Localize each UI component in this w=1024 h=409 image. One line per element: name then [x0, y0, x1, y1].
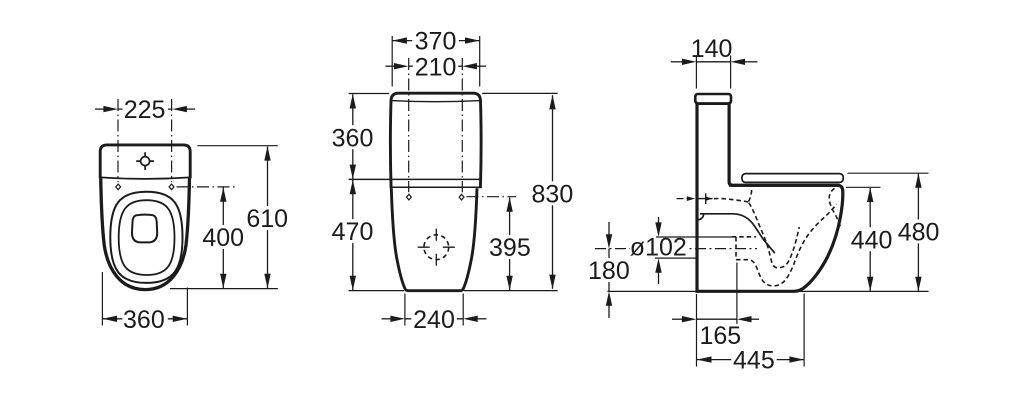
dimension 610 text: [245, 206, 290, 230]
dimension 370 text: [412, 29, 459, 53]
dimension 445 extensions: [697, 294, 805, 367]
dimension 400 line with arrows: [222, 188, 224, 289]
side hidden rim rise dashed: [749, 189, 752, 202]
dimension 445 text: [731, 348, 777, 372]
dimension 225 left arrow: [95, 108, 105, 110]
dimension 440 line with arrows: [869, 188, 871, 291]
plan target symbol (lid fixing) circle: [141, 157, 150, 166]
dimension 610 extension top: [197, 145, 277, 147]
dimension 210 text: [413, 54, 459, 78]
dimension 225 right arrow: [185, 108, 195, 110]
dimension 360 (front) text: [330, 125, 375, 149]
dimension 470 text: [330, 219, 375, 243]
dimension 165 line: [697, 318, 737, 320]
front top extension line right: [482, 92, 557, 94]
dimension 360 (front) line with arrows: [352, 94, 354, 179]
side outlet centerline dash-dot: [595, 248, 757, 250]
plan cistern tank outline: [100, 145, 190, 178]
dimension 370 extensions: [392, 36, 480, 87]
svg-text:470: 470: [332, 218, 374, 246]
dimension 440 text: [848, 227, 893, 251]
side outlet pipe bottom line: [655, 257, 696, 259]
svg-text:210: 210: [415, 53, 457, 81]
front hinge diamond left: [407, 194, 412, 200]
dimension 480 line with arrows: [917, 174, 919, 291]
dimension 210 left arrow: [385, 65, 395, 67]
dimension 140 right arrow: [745, 61, 758, 63]
front hinge dash-dot to 395: [467, 196, 517, 198]
dimension 225 text: [123, 97, 169, 121]
dimension 470 line with arrows: [352, 180, 354, 290]
front cistern outline: [390, 93, 481, 188]
dimension ø102 bottom arrow: [658, 270, 660, 284]
dimension 180 bottom arrow: [608, 304, 610, 318]
dimension 360 extension left: [101, 272, 103, 326]
front pedestal body outline: [391, 188, 477, 291]
dimension 360 line with arrows: [102, 318, 187, 320]
svg-text:360: 360: [123, 306, 165, 334]
plan seat inner oval: [119, 200, 175, 275]
dimension 395 line with arrows: [509, 198, 511, 291]
dimension 140 left arrow: [671, 61, 682, 63]
plan seat outer oval: [110, 192, 182, 283]
side hidden outlet box dashed: [732, 236, 756, 238]
svg-text:395: 395: [489, 234, 531, 262]
svg-text:400: 400: [202, 224, 244, 252]
plan hinge dash-dot line to 400 dim: [177, 186, 237, 188]
svg-text:370: 370: [415, 28, 457, 56]
plan hinge diamond right: [169, 184, 174, 190]
front centerline right (210 extension): [461, 58, 463, 192]
dimension 395 text: [488, 235, 533, 259]
front floor extension line: [349, 290, 558, 292]
dimension 370 line with arrows: [392, 40, 480, 42]
svg-text:360: 360: [332, 124, 374, 152]
svg-text:830: 830: [532, 180, 574, 208]
front top extension line left: [349, 93, 390, 95]
dimension ø102 text: [630, 239, 686, 257]
dimension 140 extensions: [696, 56, 730, 89]
dimension 225 line: [118, 108, 172, 110]
dimension 180 line: [608, 249, 610, 292]
front cistern lid seam line: [391, 101, 480, 102]
side seat slab: [742, 174, 843, 183]
dimension 165 text: [698, 324, 743, 347]
svg-text:225: 225: [124, 96, 166, 124]
dimension 165 right arrow: [751, 318, 760, 320]
plan centerline right (225 extension): [171, 99, 173, 182]
dimension 140 line: [696, 61, 730, 63]
front drain dashed circle: [424, 235, 449, 260]
dimension 180 top arrow: [608, 222, 610, 236]
svg-text:180: 180: [588, 257, 630, 285]
dimension 610 line with arrows: [267, 147, 269, 289]
side hidden rim section loop dashed: [829, 188, 840, 226]
dimension 480 extension: [848, 172, 929, 174]
dimension 240 right arrow: [477, 318, 487, 320]
svg-text:440: 440: [851, 226, 893, 254]
front centerline left (210 extension): [408, 58, 410, 192]
dimension 165 left arrow: [672, 318, 683, 320]
svg-text:480: 480: [898, 219, 940, 247]
plan bowl body outline: [101, 177, 190, 290]
front tank/bowl seam line lower: [391, 186, 480, 188]
plan water area outline: [132, 215, 157, 243]
plan centerline left (225 extension): [117, 99, 119, 182]
plan tank front (bottom) curved edge: [100, 177, 190, 179]
dimension 360 text: [122, 307, 168, 331]
side hidden trap inner dashed: [749, 203, 800, 268]
dimension 445 line with arrows: [697, 359, 804, 361]
side outlet pipe top line: [656, 236, 732, 238]
front hinge diamond right: [459, 194, 464, 200]
dimension ø102 top arrow: [658, 217, 660, 226]
dimension 240 text: [411, 307, 457, 331]
dimension 830 line with arrows: [552, 95, 554, 289]
dimension 440 extension: [846, 186, 881, 188]
side inlet wall arc: [698, 214, 704, 220]
side rim thick line under seat: [729, 184, 840, 187]
dimension 360 extension right: [186, 288, 188, 326]
dimension 240 line: [405, 318, 463, 320]
side body outline: [697, 103, 843, 291]
svg-text:140: 140: [691, 35, 733, 63]
svg-text:240: 240: [413, 306, 455, 334]
plan hinge diamond left: [116, 184, 121, 190]
dimension 210 right arrow: [476, 65, 486, 67]
side inlet arrow symbol: [677, 198, 689, 200]
dimension 830 text: [530, 181, 575, 205]
dimension 180 text: [587, 258, 632, 282]
dimension 240 extensions: [405, 294, 463, 326]
front drain crosshair ticks: [418, 229, 455, 266]
dimension 240 left arrow: [382, 318, 392, 320]
svg-text:610: 610: [246, 205, 288, 233]
plan target symbol ticks: [136, 152, 154, 170]
side inner bowl solid curve: [700, 214, 775, 253]
svg-text:445: 445: [733, 347, 775, 375]
dimension 610 extension bottom: [170, 288, 278, 290]
side cistern lid: [695, 94, 731, 103]
dimension 210 line: [408, 65, 462, 67]
svg-text:ø102: ø102: [630, 233, 687, 261]
dimension 165 extension: [736, 263, 738, 326]
dimension 480 text: [896, 219, 941, 243]
side hidden trap outer dashed: [736, 204, 837, 286]
side hidden rim channel dashed: [714, 199, 748, 202]
dimension 400 text: [201, 225, 246, 249]
front tank/bowl seam line upper: [349, 178, 481, 180]
side floor extension line: [608, 290, 929, 292]
